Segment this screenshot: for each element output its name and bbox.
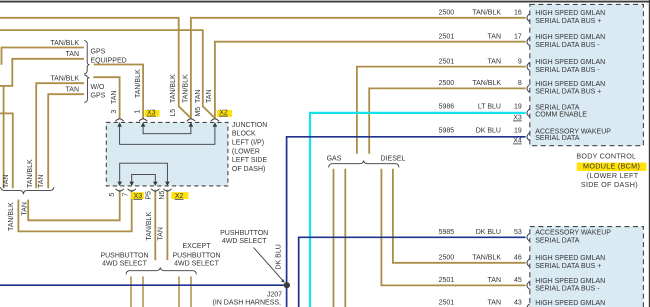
svg-text:PUSHBUTTON: PUSHBUTTON <box>172 253 220 260</box>
svg-text:TAN: TAN <box>22 202 29 215</box>
wire TAN/BLK from left edge to option brace <box>0 113 13 188</box>
BCM pin 16 <box>527 14 530 22</box>
wire TAN gps equipped stub <box>0 59 84 86</box>
svg-text:PUSHBUTTON: PUSHBUTTON <box>100 253 148 260</box>
svg-text:SERIAL DATA BUS +: SERIAL DATA BUS + <box>535 263 601 270</box>
svg-text:46: 46 <box>514 255 522 262</box>
brace 4wd select options <box>126 267 196 274</box>
svg-text:EXCEPT: EXCEPT <box>182 243 211 250</box>
svg-text:J207: J207 <box>267 291 282 298</box>
svg-text:TAN/BLK: TAN/BLK <box>472 10 501 17</box>
svg-text:L5: L5 <box>170 109 177 117</box>
wire frame border at right edge <box>648 0 650 307</box>
svg-text:TAN: TAN <box>3 175 10 188</box>
svg-text:HIGH SPEED GMLAN: HIGH SPEED GMLAN <box>535 81 605 88</box>
BCM pin 9 <box>527 63 530 71</box>
svg-text:53: 53 <box>514 229 522 236</box>
svg-text:2501: 2501 <box>439 300 455 307</box>
junction pin X3-5 <box>116 182 124 192</box>
svg-text:X2: X2 <box>219 110 228 117</box>
svg-text:TAN/BLK: TAN/BLK <box>8 202 15 231</box>
svg-text:M5: M5 <box>195 107 202 117</box>
svg-text:TAN/BLK: TAN/BLK <box>472 80 501 87</box>
svg-text:3: 3 <box>111 110 118 114</box>
brace gas/diesel options <box>329 161 399 168</box>
junction pin X3-3 <box>116 119 124 127</box>
highlight junction X3 (bottom) <box>131 192 144 199</box>
svg-text:5985: 5985 <box>439 127 455 134</box>
wire TAN/BLK pushbutton 4wd select 2 <box>142 276 144 307</box>
svg-text:TAN/BLK: TAN/BLK <box>183 74 190 103</box>
svg-text:X3: X3 <box>147 110 156 117</box>
svg-text:SIDE OF DASH): SIDE OF DASH) <box>581 180 638 189</box>
svg-text:N5: N5 <box>159 191 166 200</box>
svg-text:SERIAL DATA BUS +: SERIAL DATA BUS + <box>535 89 601 96</box>
svg-text:GAS: GAS <box>327 156 342 163</box>
svg-text:5: 5 <box>109 193 116 197</box>
wire TAN left bus to junction M5 (left segment) <box>0 30 215 118</box>
svg-text:2500: 2500 <box>439 255 455 262</box>
body control module block lower body <box>530 227 644 307</box>
junction pin X2-M5 <box>211 119 219 127</box>
svg-text:43: 43 <box>514 300 522 307</box>
BCM pin 8 <box>527 85 530 93</box>
svg-text:TAN: TAN <box>488 300 501 307</box>
svg-text:SERIAL DATA: SERIAL DATA <box>535 104 580 111</box>
svg-text:TAN: TAN <box>195 90 202 103</box>
svg-text:PUSHBUTTON: PUSHBUTTON <box>220 230 268 237</box>
svg-text:LEFT SIDE: LEFT SIDE <box>232 157 268 164</box>
svg-text:4WD SELECT: 4WD SELECT <box>222 238 267 245</box>
svg-text:2501: 2501 <box>439 33 455 40</box>
svg-text:(LOWER LEFT: (LOWER LEFT <box>587 171 639 180</box>
svg-text:2500: 2500 <box>439 10 455 17</box>
svg-text:17: 17 <box>514 33 522 40</box>
BCM pin 45 <box>527 282 530 290</box>
wire 2500 TAN/BLK high speed GMLAN bus + (BCM pin16) to junction L5 <box>191 18 526 119</box>
wire 2500 TAN/BLK high speed GMLAN bus + (BCM pin8) diesel <box>369 88 525 153</box>
wire 5985 DK BLU accessory wakeup (BCM pin 53) <box>299 237 526 307</box>
svg-text:5985: 5985 <box>439 229 455 236</box>
svg-text:TAN/BLK: TAN/BLK <box>27 159 34 188</box>
wire 5985 DK BLU from left harness to J207 <box>0 284 287 286</box>
svg-text:TAN/BLK: TAN/BLK <box>472 255 501 262</box>
wire TAN pushbutton 4wd select 1 <box>130 276 132 307</box>
junction block internal bus X3-3 to X2-M5 <box>120 127 215 145</box>
junction block internal bus X3-5 to X2-N5 <box>120 163 168 181</box>
splice node J207 <box>284 282 290 288</box>
highlight junction X2 (top) <box>217 110 232 117</box>
svg-text:TAN/BLK: TAN/BLK <box>170 74 177 103</box>
svg-text:4WD SELECT: 4WD SELECT <box>174 261 219 268</box>
svg-text:TAN: TAN <box>488 33 501 40</box>
svg-text:TAN: TAN <box>38 175 45 188</box>
svg-text:GPS: GPS <box>91 49 106 56</box>
svg-text:COMM ENABLE: COMM ENABLE <box>535 112 587 119</box>
junction block body <box>106 122 228 185</box>
svg-text:HIGH SPEED GMLAN: HIGH SPEED GMLAN <box>535 34 605 41</box>
BCM pin X4-19 <box>527 133 530 141</box>
wire TAN junction X2-N5 down <box>166 190 168 261</box>
junction pin X3-7 <box>128 182 136 192</box>
svg-text:TAN/BLK: TAN/BLK <box>135 69 142 98</box>
svg-text:7: 7 <box>122 193 129 197</box>
svg-text:HIGH SPEED GMLAN: HIGH SPEED GMLAN <box>535 255 605 262</box>
svg-text:BODY CONTROL: BODY CONTROL <box>576 151 636 160</box>
svg-text:GPS: GPS <box>91 93 106 100</box>
svg-text:8: 8 <box>518 80 522 87</box>
brace w/o gps options <box>84 75 89 102</box>
svg-text:45: 45 <box>514 277 522 284</box>
wire TAN gas option 1 <box>333 169 335 307</box>
brace gps equipped options <box>84 41 89 74</box>
svg-text:MODULE (BCM): MODULE (BCM) <box>583 162 640 171</box>
svg-text:TAN: TAN <box>111 91 118 104</box>
svg-text:DK BLU: DK BLU <box>476 229 501 236</box>
wire BLK hot-at-all-times bus (top) <box>0 1 650 3</box>
pointer line pushbutton 4wd select to J207 <box>254 248 284 282</box>
svg-text:SERIAL DATA: SERIAL DATA <box>535 238 580 245</box>
svg-text:4WD SELECT: 4WD SELECT <box>102 261 147 268</box>
wire TAN except pushbutton 4wd 1 <box>178 276 180 307</box>
highlight junction X3 (top) <box>145 110 160 117</box>
brace left option merge <box>1 187 54 194</box>
svg-text:HIGH SPEED GMLAN: HIGH SPEED GMLAN <box>535 278 605 285</box>
wire 5986 LT BLU serial data comm enable (BCM X3-19) <box>310 113 526 307</box>
svg-text:TAN/BLK: TAN/BLK <box>50 40 79 47</box>
svg-text:TAN: TAN <box>206 90 213 103</box>
highlight MODULE (BCM) <box>577 163 647 171</box>
svg-text:EQUIPPED: EQUIPPED <box>91 57 127 64</box>
svg-text:TAN: TAN <box>66 86 79 93</box>
junction pin X2-L5 <box>187 119 195 127</box>
svg-text:19: 19 <box>514 103 522 110</box>
svg-text:TAN: TAN <box>66 51 79 58</box>
svg-text:(IN DASH HARNESS,: (IN DASH HARNESS, <box>213 300 282 307</box>
svg-text:SERIAL DATA BUS -: SERIAL DATA BUS - <box>535 67 600 74</box>
svg-text:LEFT (I/P): LEFT (I/P) <box>232 139 264 146</box>
svg-text:2501: 2501 <box>439 277 455 284</box>
svg-text:DK BLU: DK BLU <box>276 244 283 269</box>
svg-text:X4: X4 <box>513 137 522 144</box>
svg-text:DK BLU: DK BLU <box>476 127 501 134</box>
wire 2501 TAN high speed GMLAN bus - (BCM pin17) to junction M5 <box>215 42 526 119</box>
wire TAN/BLK option merge to junction X3-7 <box>18 190 131 232</box>
svg-text:9: 9 <box>518 58 522 65</box>
svg-text:LT BLU: LT BLU <box>478 103 501 110</box>
svg-text:TAN/BLK: TAN/BLK <box>50 76 79 83</box>
svg-text:16: 16 <box>514 10 522 17</box>
wire 2500 TAN/BLK diesel to BCM pin46 <box>393 169 526 263</box>
svg-text:OF DASH): OF DASH) <box>232 166 265 173</box>
BCM pin X3-19 <box>527 109 530 117</box>
highlight junction X2 (bottom) <box>171 192 188 199</box>
wire TAN option merge to junction X3-5 <box>28 190 120 221</box>
svg-text:TAN: TAN <box>488 58 501 65</box>
svg-text:SERIAL DATA BUS -: SERIAL DATA BUS - <box>535 286 600 293</box>
wire 2501 TAN diesel to BCM pin45 <box>381 169 525 286</box>
wire TAN merged w/o-gps to junction X3-3 <box>93 77 119 119</box>
junction pin X2-N5 <box>163 182 171 192</box>
svg-text:W/O: W/O <box>91 84 106 91</box>
svg-text:JUNCTION: JUNCTION <box>232 122 267 129</box>
wire 5985 DK BLU accessory wakeup (BCM X4-19) to J207 <box>287 137 526 307</box>
wire TAN/BLK w/o gps stub <box>36 83 84 188</box>
wire TAN/BLK merged gps-equipped to junction X3-1 <box>94 65 143 119</box>
svg-text:19: 19 <box>514 127 522 134</box>
svg-text:TAN: TAN <box>488 277 501 284</box>
junction block internal bus X3-1 to X2-L5 <box>143 127 191 134</box>
BCM pin 17 <box>527 38 530 46</box>
wire TAN gas option 2 <box>344 169 346 307</box>
svg-text:X3: X3 <box>513 114 522 121</box>
svg-text:HIGH SPEED GMLAN: HIGH SPEED GMLAN <box>535 10 605 17</box>
wire 2501 TAN high speed GMLAN bus - (BCM pin9) diesel <box>357 67 526 154</box>
svg-text:1: 1 <box>135 110 142 114</box>
BCM pin 43 <box>527 304 530 307</box>
junction block internal bus X3-7 to X2-P5 <box>132 174 156 181</box>
svg-text:DIESEL: DIESEL <box>381 156 406 163</box>
svg-text:HIGH SPEED GMLAN: HIGH SPEED GMLAN <box>535 300 605 307</box>
svg-text:TAN/BLK: TAN/BLK <box>146 212 153 241</box>
svg-text:5986: 5986 <box>439 103 455 110</box>
svg-text:P5: P5 <box>146 191 153 200</box>
svg-text:TAN: TAN <box>158 227 165 240</box>
wire TAN/BLK left bus to junction L5 (left segment) <box>0 18 191 118</box>
wire TAN drop from gps splice to option brace <box>3 86 5 188</box>
BCM pin 46 <box>527 259 530 267</box>
wire TAN/BLK gps equipped stub <box>2 48 85 65</box>
wire TAN/BLK except pushbutton 4wd 2 <box>190 276 192 307</box>
wire TAN/BLK junction X2-P5 down <box>154 190 156 261</box>
junction pin X3-1 <box>139 119 147 127</box>
svg-text:SERIAL DATA BUS +: SERIAL DATA BUS + <box>535 18 601 25</box>
svg-text:SERIAL DATA BUS -: SERIAL DATA BUS - <box>535 42 600 49</box>
svg-text:HIGH SPEED GMLAN: HIGH SPEED GMLAN <box>535 59 605 66</box>
wire TAN w/o gps stub <box>48 94 84 188</box>
svg-text:2500: 2500 <box>439 80 455 87</box>
svg-text:BLOCK: BLOCK <box>232 131 256 138</box>
junction pin X2-P5 <box>151 182 159 192</box>
svg-text:ACCESSORY WAKEUP: ACCESSORY WAKEUP <box>535 230 611 237</box>
svg-text:(LOWER: (LOWER <box>232 148 260 155</box>
svg-text:SERIAL DATA: SERIAL DATA <box>535 135 580 142</box>
body control module block upper body <box>530 4 644 145</box>
svg-text:2501: 2501 <box>439 58 455 65</box>
BCM pin 53 <box>527 233 530 241</box>
